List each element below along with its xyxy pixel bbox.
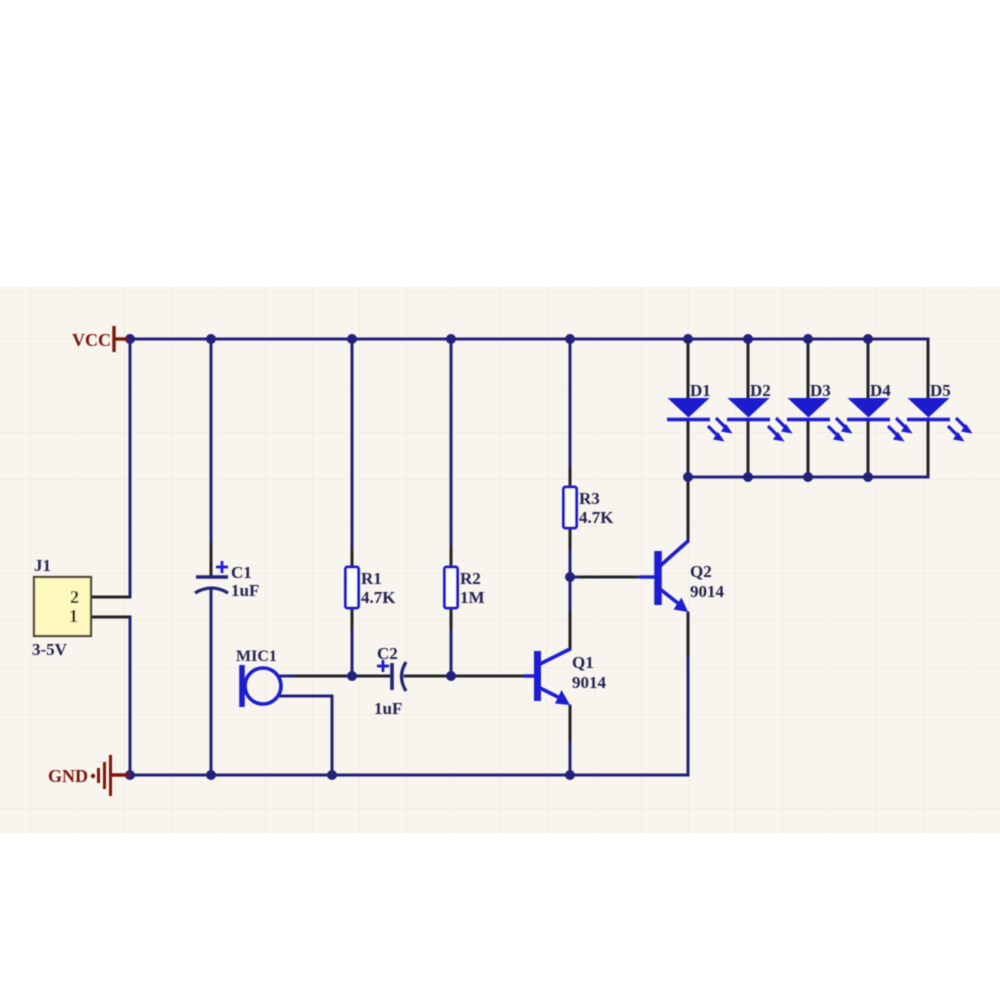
svg-text:R3: R3 xyxy=(579,489,600,508)
svg-text:D4: D4 xyxy=(870,381,891,400)
svg-text:3-5V: 3-5V xyxy=(32,640,68,659)
svg-text:Q2: Q2 xyxy=(690,562,712,581)
svg-text:J1: J1 xyxy=(34,556,51,575)
svg-text:D2: D2 xyxy=(750,381,771,400)
svg-text:MIC1: MIC1 xyxy=(236,648,277,665)
svg-text:1uF: 1uF xyxy=(374,699,402,718)
svg-text:C2: C2 xyxy=(377,644,398,663)
svg-text:R2: R2 xyxy=(460,569,481,588)
svg-text:4.7K: 4.7K xyxy=(361,588,396,607)
svg-text:1: 1 xyxy=(69,606,78,626)
svg-text:Q1: Q1 xyxy=(572,653,594,672)
svg-text:1uF: 1uF xyxy=(231,581,259,600)
svg-text:D5: D5 xyxy=(930,381,951,400)
svg-text:9014: 9014 xyxy=(572,673,607,692)
svg-text:C1: C1 xyxy=(231,563,252,582)
svg-text:D1: D1 xyxy=(690,381,711,400)
svg-text:VCC: VCC xyxy=(72,330,111,350)
svg-text:9014: 9014 xyxy=(690,582,725,601)
svg-text:4.7K: 4.7K xyxy=(579,508,614,527)
svg-text:1M: 1M xyxy=(460,588,485,607)
svg-text:R1: R1 xyxy=(361,569,382,588)
svg-text:2: 2 xyxy=(70,587,79,607)
svg-text:GND: GND xyxy=(48,766,88,786)
svg-text:D3: D3 xyxy=(810,381,831,400)
